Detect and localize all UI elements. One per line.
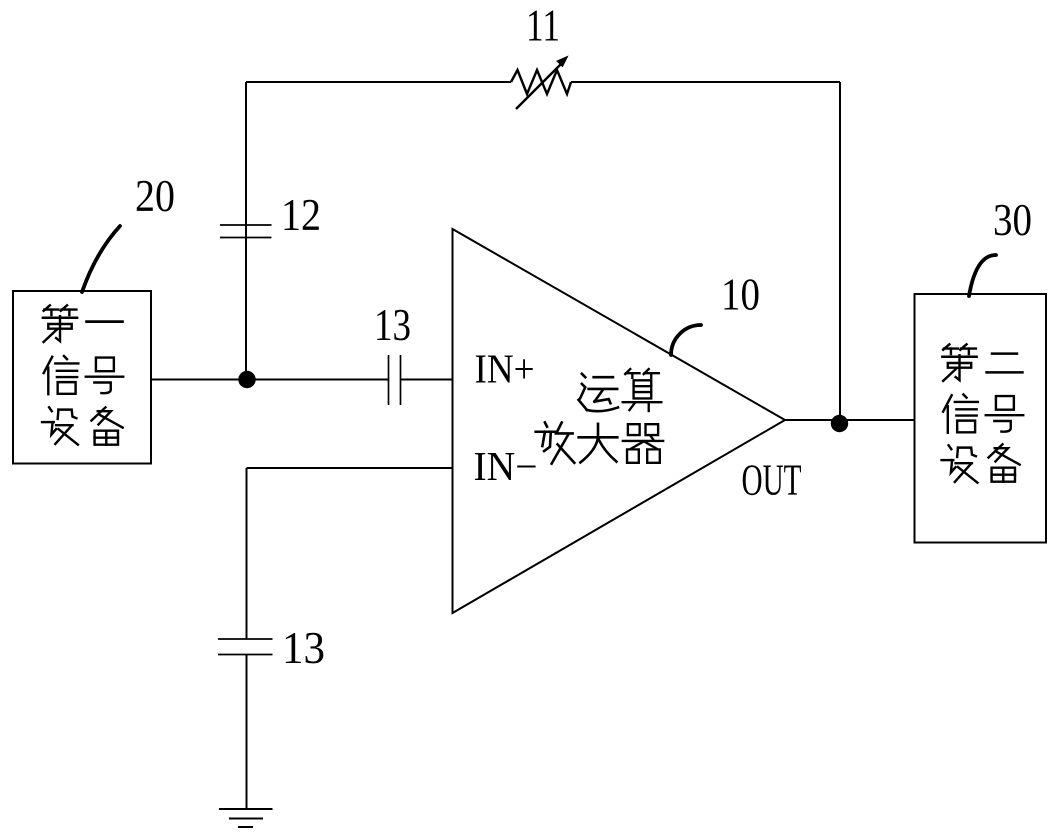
svg-text:OUT: OUT — [742, 456, 802, 505]
svg-text:10: 10 — [721, 270, 760, 320]
svg-text:13: 13 — [282, 623, 325, 673]
svg-text:20: 20 — [135, 171, 175, 221]
svg-text:11: 11 — [526, 1, 560, 51]
svg-text:IN+: IN+ — [475, 346, 535, 392]
svg-text:IN−: IN− — [474, 443, 538, 489]
svg-text:13: 13 — [374, 300, 411, 350]
svg-text:30: 30 — [993, 195, 1032, 245]
svg-text:12: 12 — [281, 190, 321, 240]
